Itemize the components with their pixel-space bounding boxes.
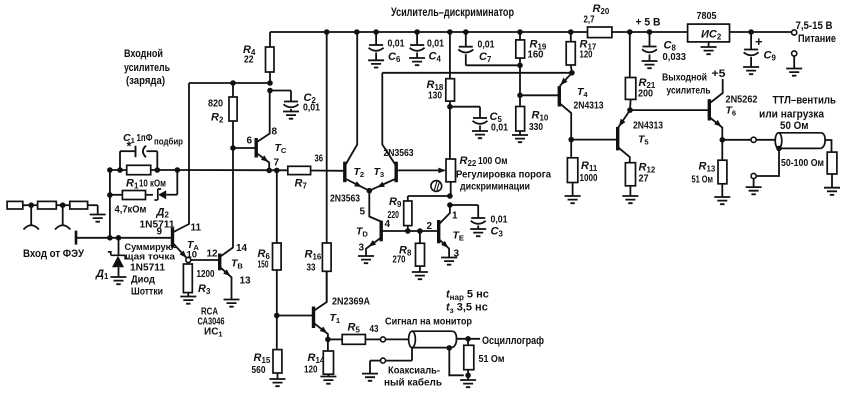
resistor R16 33	[326, 32, 328, 243]
svg-text:+: +	[755, 34, 763, 49]
ground R10	[512, 135, 528, 142]
wire collector node horizontal	[189, 82, 270, 84]
resistor PMT divider 1	[7, 201, 23, 209]
svg-text:14: 14	[236, 243, 248, 254]
svg-text:Коаксиаль-: Коаксиаль-	[388, 365, 440, 377]
terminal monitor jack center	[381, 337, 386, 342]
svg-text:150: 150	[258, 259, 269, 271]
svg-text:22: 22	[244, 54, 254, 66]
resistor PMT divider 3	[70, 201, 88, 209]
svg-text:2N2369A: 2N2369A	[332, 296, 370, 308]
svg-text:50-100 Ом: 50-100 Ом	[781, 157, 824, 169]
terminal input plate	[75, 231, 78, 245]
ground 51 Ohm	[460, 380, 476, 387]
ground TB emitter	[224, 300, 240, 307]
svg-text:7: 7	[274, 158, 280, 169]
wire output coax shield	[776, 146, 782, 152]
wire T3 collector	[382, 73, 396, 166]
wire Tc collector	[256, 91, 270, 143]
ground R13	[714, 197, 730, 204]
svg-text:1N5711: 1N5711	[130, 262, 165, 274]
svg-text:0,01: 0,01	[478, 39, 495, 51]
svg-text:6: 6	[247, 136, 253, 147]
ground R15	[270, 379, 286, 386]
resistor PMT divider 2	[38, 201, 57, 209]
svg-text:120: 120	[304, 364, 318, 376]
svg-text:12: 12	[207, 249, 219, 260]
svg-text:(заряда): (заряда)	[126, 75, 165, 87]
svg-text:220: 220	[388, 209, 400, 221]
wire T2 collector	[345, 32, 357, 166]
svg-text:51 Ом: 51 Ом	[479, 353, 505, 365]
transistor TA base bar	[171, 228, 174, 248]
ground R11	[565, 196, 581, 203]
capacitor C6 0,01	[375, 32, 377, 45]
wire T4 collector to T5 base	[571, 139, 618, 141]
svg-text:160: 160	[528, 49, 544, 61]
transistor T3 base bar	[395, 162, 398, 183]
svg-text:0,01: 0,01	[303, 102, 320, 114]
wire main summing rail	[177, 169, 287, 171]
svg-text:560: 560	[252, 364, 266, 376]
ground R8	[412, 272, 428, 279]
wire input to summing node	[76, 237, 173, 239]
wire R6 node to T1 base	[277, 315, 314, 317]
node common emitters	[367, 188, 373, 194]
coaxial cable monitor	[412, 331, 452, 347]
screwdriver adjust symbol	[431, 181, 442, 192]
resistor R8 270	[419, 231, 421, 243]
wire TA collector	[173, 83, 190, 233]
svg-text:или нагрузка: или нагрузка	[759, 109, 825, 121]
svg-text:270: 270	[393, 254, 406, 266]
svg-text:3: 3	[359, 243, 365, 254]
dynode electrode symbol 2	[62, 205, 64, 225]
capacitor C8 0,033	[649, 32, 651, 47]
svg-text:120: 120	[580, 49, 593, 61]
resistor R7	[288, 166, 311, 174]
transistor T1 base bar	[312, 307, 315, 329]
svg-text:13: 13	[240, 276, 252, 287]
wire T4 emitter	[560, 73, 572, 86]
svg-text:2N4313: 2N4313	[574, 100, 604, 112]
terminal output jack center	[751, 137, 756, 142]
svg-text:1пФ: 1пФ	[137, 133, 153, 144]
resistor R14 120	[327, 339, 329, 351]
wire R19 to T4 base node	[519, 65, 521, 106]
wire R22 node to R9	[408, 195, 450, 197]
terminal 7,5-15 V supply input	[792, 30, 797, 35]
wire R2 to Tc base	[233, 147, 256, 149]
resistor R11 1000	[570, 140, 572, 158]
svg-text:10 кОм: 10 кОм	[139, 178, 166, 190]
wire TD collector from emitters	[369, 191, 381, 222]
resistor 50-100 Ohm load	[827, 152, 837, 174]
svg-text:36: 36	[315, 154, 324, 165]
svg-text:+ 5 В: + 5 В	[636, 17, 661, 29]
svg-text:ТТЛ–вентиль: ТТЛ–вентиль	[773, 95, 837, 107]
svg-text:33: 33	[307, 262, 316, 274]
svg-text:2: 2	[427, 221, 433, 232]
wire T4 base	[520, 94, 559, 96]
wire coax shield tap	[447, 345, 453, 351]
terminal output jack shield	[751, 173, 756, 178]
wire summing node vertical	[109, 170, 111, 238]
resistor R19 160	[519, 32, 521, 40]
transistor TD base bar	[380, 221, 383, 242]
svg-text:0,033: 0,033	[663, 51, 687, 63]
terminal monitor jack shield	[381, 358, 386, 363]
wire TB emitter	[220, 267, 232, 300]
resistor R6 150	[276, 170, 278, 243]
resistor R2 820	[232, 83, 234, 97]
wire T5 emitter	[618, 110, 630, 127]
transistor TB base bar	[218, 254, 221, 271]
svg-text:2,7: 2,7	[584, 14, 595, 26]
capacitor C3 0,01	[450, 204, 478, 206]
transistor TE base bar	[437, 220, 440, 243]
transistor T4 base bar	[558, 86, 561, 106]
wire T4 collector	[559, 103, 571, 140]
svg-text:Осциллограф: Осциллограф	[482, 335, 544, 347]
resistor R10 330	[516, 107, 525, 132]
svg-text:50 Ом: 50 Ом	[780, 120, 809, 132]
transistor T2 base bar	[343, 162, 346, 183]
capacitor C1 1pF trim	[119, 151, 121, 170]
svg-text:1200: 1200	[197, 268, 215, 280]
svg-text:7805: 7805	[697, 10, 717, 22]
capacitor C5 0,01	[450, 106, 480, 108]
ground TD emitter	[358, 256, 374, 263]
dynode electrode symbol 1	[30, 205, 32, 225]
wire Tc emitter	[256, 153, 269, 171]
ground TE emitter	[441, 258, 457, 265]
wire T1 collector	[314, 271, 327, 311]
resistor 51 Ohm monitor	[467, 339, 469, 346]
wire T6 emitter to output jack	[722, 139, 751, 141]
voltage regulator IC2 7805	[688, 24, 730, 42]
svg-text:0,01: 0,01	[388, 38, 405, 50]
svg-text:8: 8	[272, 127, 278, 138]
svg-text:ный кабель: ный кабель	[384, 377, 443, 389]
ground load resistor	[824, 188, 840, 195]
svg-text:11: 11	[191, 223, 202, 234]
resistor R17 120	[570, 32, 572, 42]
svg-text:4,7кОм: 4,7кОм	[115, 204, 147, 216]
wire C7 to R19 bottom	[466, 64, 520, 66]
svg-text:0,01: 0,01	[427, 38, 444, 50]
svg-text:Регулировка порога: Регулировка порога	[456, 169, 551, 181]
svg-text:9: 9	[157, 227, 163, 238]
resistor R12 27	[625, 163, 635, 186]
capacitor C4 0,01	[416, 32, 418, 45]
svg-text:43: 43	[370, 324, 379, 335]
svg-text:820: 820	[208, 98, 223, 110]
svg-text:2N3563: 2N3563	[384, 147, 414, 159]
svg-text:Усилитель–дискриминатор: Усилитель–дискриминатор	[391, 5, 514, 19]
svg-text:Вход от ФЭУ: Вход от ФЭУ	[23, 248, 84, 260]
node summing junctions	[107, 235, 113, 241]
svg-text:1000: 1000	[580, 172, 598, 184]
resistor R21 200	[629, 32, 631, 78]
svg-text:200: 200	[638, 88, 653, 100]
transistor T6 base bar	[708, 99, 711, 120]
resistor R13 51 Ohm	[721, 140, 723, 160]
svg-text:дискриминации: дискриминации	[460, 181, 530, 193]
svg-text:2N4313: 2N4313	[633, 120, 663, 132]
svg-text:2N3563: 2N3563	[330, 193, 360, 205]
resistor R18 130	[449, 32, 451, 79]
node top rail junctions	[324, 29, 330, 35]
svg-text:Диод: Диод	[131, 274, 155, 286]
resistor R1 10k feedback	[110, 169, 127, 171]
svg-text:усилитель: усилитель	[124, 62, 170, 74]
wire T3 emitter	[369, 179, 396, 191]
ground R12	[622, 196, 638, 203]
wire T5 collector	[618, 147, 630, 163]
transistor Tc base bar	[255, 138, 258, 158]
wire T6 collector to +5	[709, 79, 722, 104]
wire T1 emitter	[314, 323, 328, 340]
wire coax to load resistor	[825, 140, 831, 152]
resistor R5 43	[328, 338, 342, 340]
wire T3 base to R22 wiper	[396, 169, 445, 171]
svg-text:Выходной: Выходной	[662, 72, 707, 84]
svg-text:5: 5	[360, 207, 366, 218]
ground divider	[90, 215, 106, 222]
svg-text:Сигнал на монитор: Сигнал на монитор	[385, 316, 472, 328]
wire T3 collector rail	[382, 72, 572, 74]
svg-text:100 Ом: 100 Ом	[478, 155, 508, 167]
svg-text:подбир: подбир	[154, 137, 183, 147]
ground R3	[180, 297, 196, 304]
capacitor C7 0,01	[465, 32, 467, 47]
wire T6 emitter	[709, 117, 722, 140]
svg-text:0,01: 0,01	[491, 122, 508, 134]
wire coax center to oscilloscope	[457, 338, 481, 340]
svg-text:1: 1	[452, 211, 458, 222]
wire divider to ground	[88, 204, 98, 206]
wire divider link 1	[23, 204, 38, 206]
svg-text:+5: +5	[712, 68, 726, 80]
wire R7 to T2 base	[311, 170, 345, 172]
wire TE emitter	[439, 239, 449, 258]
wire divider link 2	[56, 204, 70, 206]
wire T2 emitter	[345, 179, 370, 191]
svg-text:27: 27	[639, 173, 649, 185]
diode D1 1N5711 Schottky	[118, 238, 120, 256]
transistor T5 base bar	[616, 127, 619, 150]
svg-text:130: 130	[428, 90, 442, 102]
resistor R4 22	[269, 32, 271, 47]
svg-text:усилитель: усилитель	[667, 85, 711, 97]
potentiometer R22 100 Ohm	[446, 159, 456, 182]
ground R14	[320, 377, 336, 384]
capacitor C2 0,01	[267, 88, 273, 94]
svg-text:Шоттки: Шоттки	[131, 286, 163, 298]
svg-text:Входной: Входной	[124, 48, 163, 60]
wire TD base line	[381, 230, 438, 232]
terminal supply ground	[792, 51, 797, 56]
resistor R15 560	[273, 350, 282, 373]
svg-text:330: 330	[529, 121, 543, 133]
node TA emitter open circle	[186, 258, 191, 263]
capacitor C9	[750, 32, 752, 50]
wire TE collector	[439, 205, 450, 225]
svg-text:51 Ом: 51 Ом	[692, 174, 714, 186]
wire TB collector	[220, 148, 233, 257]
resistor R9 220	[404, 201, 412, 226]
svg-text:0,01: 0,01	[491, 214, 508, 226]
svg-text:Питание: Питание	[798, 33, 836, 45]
svg-text:7,5-15 В: 7,5-15 В	[796, 20, 833, 32]
resistor R20 2,7	[588, 27, 612, 38]
wire T5 to T6 base	[630, 109, 709, 111]
wire TA emitter	[173, 243, 187, 258]
resistor R3 1200	[187, 263, 189, 265]
resistor 4,7 kOhm	[110, 194, 123, 196]
wire top +5V rail	[270, 31, 588, 33]
wire TA emitter to TB base	[191, 259, 220, 261]
wire TD emitter	[366, 238, 381, 257]
coaxial cable output	[779, 133, 821, 149]
diode D2 1N5711	[154, 189, 161, 200]
ground D1	[111, 277, 127, 284]
ground output jack	[746, 187, 762, 194]
ground monitor jack	[362, 374, 378, 381]
